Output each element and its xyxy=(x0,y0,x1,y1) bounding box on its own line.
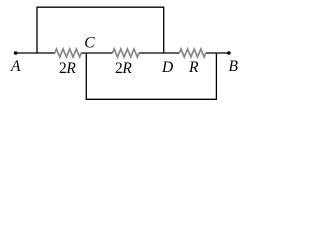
wire R1 to R2 through node C xyxy=(81,52,112,54)
wire top bypass rail xyxy=(37,7,164,53)
resistor R3 value R xyxy=(179,49,206,57)
svg-text:A: A xyxy=(10,58,21,75)
svg-text:R: R xyxy=(188,59,199,76)
resistor R2 value 2R xyxy=(113,49,140,57)
terminal dot B xyxy=(227,51,231,55)
svg-text:B: B xyxy=(229,58,239,75)
svg-text:2R: 2R xyxy=(59,60,76,77)
resistor R1 value 2R xyxy=(55,49,82,57)
wire R2 to R3 through node D xyxy=(139,52,179,54)
wire A to R1 xyxy=(16,52,55,54)
terminal dot A xyxy=(14,51,18,55)
svg-text:2R: 2R xyxy=(115,60,132,77)
wire bottom bypass rail xyxy=(86,53,216,99)
wire R3 to B xyxy=(206,52,229,54)
svg-text:D: D xyxy=(161,59,173,76)
svg-text:C: C xyxy=(84,34,95,51)
